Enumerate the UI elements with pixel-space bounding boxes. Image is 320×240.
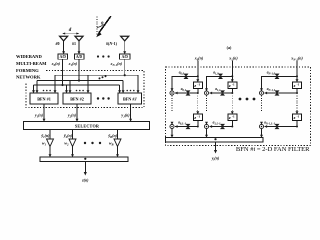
tap0 wire <box>262 76 298 90</box>
svg-text:#(N-1): #(N-1) <box>106 41 118 46</box>
BFNJ output wire <box>130 104 132 121</box>
svg-text:FORMING: FORMING <box>16 68 39 73</box>
svg-text:yi(n): yi(n) <box>211 156 220 162</box>
junction dot tap0 <box>197 75 199 77</box>
svg-text:#0: #0 <box>56 41 60 46</box>
wire adder2 to bar <box>261 129 263 137</box>
BFN2 input dots <box>76 90 78 92</box>
adder col0 row2 <box>170 124 174 128</box>
svg-text:BFN #J: BFN #J <box>123 97 138 102</box>
bus x1 <box>37 80 123 82</box>
svg-text:(a): (a) <box>227 45 232 50</box>
incident wave arrow <box>99 16 111 33</box>
svg-text:wB: wB <box>109 141 114 147</box>
svg-text:x1(n): x1(n) <box>68 61 78 67</box>
junction dot tap0 <box>296 75 298 77</box>
multiplier a11 <box>221 91 225 96</box>
spacing d arrow <box>63 33 79 35</box>
svg-text:ỹ2(n): ỹ2(n) <box>63 133 73 139</box>
multiplier aN-1,1 <box>275 91 279 96</box>
svg-text:d: d <box>69 28 72 33</box>
wire A/D0 down <box>62 59 64 85</box>
delay z-1 <box>293 82 302 89</box>
incident wave normal (dotted line) <box>96 17 98 36</box>
svg-text:a0,0: a0,0 <box>179 71 185 76</box>
dotted continuation delay chain <box>197 96 199 113</box>
svg-text:BFN #1: BFN #1 <box>37 97 51 102</box>
tap2 wire <box>175 126 198 128</box>
dots between A/D converters <box>97 55 99 57</box>
selector output 2 <box>72 130 74 140</box>
angle arc <box>97 25 103 28</box>
svg-text:y1(n): y1(n) <box>34 113 44 119</box>
svg-text:a0,1: a0,1 <box>181 87 187 92</box>
multiplier aN-1,L-1 <box>275 124 279 129</box>
input wire x0 <box>197 61 199 82</box>
wire delay2 to tap2 <box>197 121 199 127</box>
wire delay1 to tap1 <box>231 89 233 94</box>
svg-text:SELECTOR: SELECTOR <box>75 123 100 128</box>
svg-text:a1,L-1: a1,L-1 <box>213 121 222 126</box>
BFN #2 box <box>63 93 91 104</box>
BFNJ input drops <box>119 85 121 92</box>
dots between amps <box>84 142 86 144</box>
svg-text:xN-1(n): xN-1(n) <box>109 61 122 67</box>
svg-text:y2(n): y2(n) <box>67 113 77 119</box>
wire delay2 to tap2 <box>296 121 298 127</box>
input wire x1 <box>231 61 233 82</box>
BFN2 input drops <box>66 85 68 92</box>
continuation dots diagonal <box>99 77 101 79</box>
dots between BFN boxes <box>97 97 99 99</box>
bus xN-1 <box>55 74 138 76</box>
output junction dot <box>214 138 216 140</box>
svg-text:WIDEBAND: WIDEBAND <box>16 54 42 59</box>
svg-text:θ: θ <box>101 20 104 25</box>
dotted continuation adder chain <box>206 95 208 111</box>
antenna #0 <box>60 36 68 41</box>
svg-text:yJ(n): yJ(n) <box>120 113 130 119</box>
adder col1 row1 <box>204 91 208 95</box>
dashed box 2-D fan filter <box>166 67 311 146</box>
svg-text:A/D: A/D <box>122 55 129 59</box>
output wire yi(n) <box>215 142 217 151</box>
svg-text:a1,1: a1,1 <box>215 87 221 92</box>
arrow into adder2 <box>205 122 208 125</box>
dotted continuation delay chain <box>231 96 233 113</box>
svg-text:a0,L-1: a0,L-1 <box>178 121 187 126</box>
svg-text:aN-1,L-1: aN-1,L-1 <box>264 121 275 126</box>
svg-text:x0(n): x0(n) <box>194 56 204 62</box>
svg-text:ỹB(n): ỹB(n) <box>107 133 117 139</box>
BFN1 output wire <box>43 104 45 121</box>
delay z-1 <box>228 82 237 89</box>
A/D converter 1 <box>74 54 84 59</box>
svg-text:BFN #i = 2-D FAN FILTER: BFN #i = 2-D FAN FILTER <box>236 146 310 153</box>
output wire z(n) <box>84 162 86 174</box>
output junction dot <box>84 158 86 160</box>
tap0 wire <box>207 76 233 90</box>
svg-text:w2: w2 <box>64 141 69 147</box>
BFNJ input dots <box>126 90 128 92</box>
wire delay1 to tap1 <box>197 89 199 94</box>
svg-text:A/D: A/D <box>76 55 83 59</box>
junction dot x0 <box>61 84 63 86</box>
svg-text:A/D: A/D <box>60 55 67 59</box>
weight amp w1 <box>47 139 54 147</box>
tap2 wire <box>265 126 298 128</box>
multiplier a00 <box>184 74 188 79</box>
svg-text:MULTI-BEAM: MULTI-BEAM <box>16 61 47 66</box>
summing bar <box>40 157 128 162</box>
svg-text:aN-1,1: aN-1,1 <box>267 87 276 92</box>
tap0 wire <box>172 76 198 90</box>
adder colN row2 <box>259 124 263 128</box>
wire adder2 to bar <box>206 129 208 137</box>
weight amp wB <box>114 139 121 147</box>
wire delay1 to tap1 <box>296 89 298 94</box>
antenna #1 <box>75 36 83 41</box>
multiplier a1L-1 <box>221 124 225 129</box>
selector output 1 <box>49 130 51 140</box>
svg-text:aN-1,0: aN-1,0 <box>267 71 276 76</box>
dotted continuation delay chain <box>296 96 298 113</box>
dotted continuation adder chain <box>261 95 263 111</box>
multiplier a0L-1 <box>186 124 190 129</box>
delay z-1 second <box>228 114 237 121</box>
weight amp w2 <box>69 139 76 147</box>
svg-text:#1: #1 <box>72 41 76 46</box>
input wire xN-1 <box>296 61 298 82</box>
BFN #J box <box>118 93 142 104</box>
multiplier a10 <box>219 74 223 79</box>
BFN #1 box <box>30 93 58 104</box>
delay z-1 <box>193 82 202 89</box>
dashed box wideband multi-beam forming network <box>26 71 144 108</box>
SELECTOR box <box>24 122 150 130</box>
bus x0 <box>34 84 120 86</box>
arrow into adder2 <box>171 122 174 125</box>
junction dot x1 <box>78 79 80 81</box>
adder col0 row1 <box>170 91 174 95</box>
svg-text:x1(n): x1(n) <box>228 56 238 62</box>
svg-text:a1,0: a1,0 <box>213 71 219 76</box>
multiplier a01 <box>186 91 190 96</box>
junction dot tap0 <box>231 75 233 77</box>
delay z-1 second <box>293 114 302 121</box>
BFN1 input dots <box>43 90 45 92</box>
BFN1 input drops <box>33 85 35 92</box>
svg-text:BFN #2: BFN #2 <box>70 97 84 102</box>
delay z-1 second <box>193 114 202 121</box>
dotted continuation adder chain <box>171 95 173 111</box>
junction dot xN-1 <box>124 74 126 76</box>
wire A/D1 down <box>78 59 80 80</box>
adder colN row1 <box>259 91 263 95</box>
svg-text:ỹ1(n): ỹ1(n) <box>40 133 50 139</box>
tap1 wire <box>265 92 298 94</box>
wire adder2 to bar <box>171 129 173 137</box>
amp outputs into summing bar <box>49 147 51 157</box>
BFN2 output wire <box>76 104 78 121</box>
antenna #(N-1) <box>121 36 129 41</box>
wire delay2 to tap2 <box>231 121 233 127</box>
multiplier aN-1,0 <box>275 74 279 79</box>
svg-text:z(n): z(n) <box>81 178 89 183</box>
tap2 wire <box>210 126 233 128</box>
svg-text:NETWORK: NETWORK <box>16 75 41 80</box>
svg-text:w1: w1 <box>42 141 47 147</box>
svg-text:x0(n): x0(n) <box>51 61 61 67</box>
continuation dots between columns <box>239 98 242 101</box>
A/D converter N-1 <box>120 54 131 59</box>
A/D converter 0 <box>58 54 68 59</box>
tap1 wire <box>210 92 233 94</box>
summation bar right <box>166 138 264 143</box>
selector output B <box>117 130 119 140</box>
adder col1 row2 <box>204 124 208 128</box>
wire A/D N-1 down <box>124 59 126 75</box>
arrow into adder2 <box>260 122 263 125</box>
tap1 wire <box>175 92 198 94</box>
